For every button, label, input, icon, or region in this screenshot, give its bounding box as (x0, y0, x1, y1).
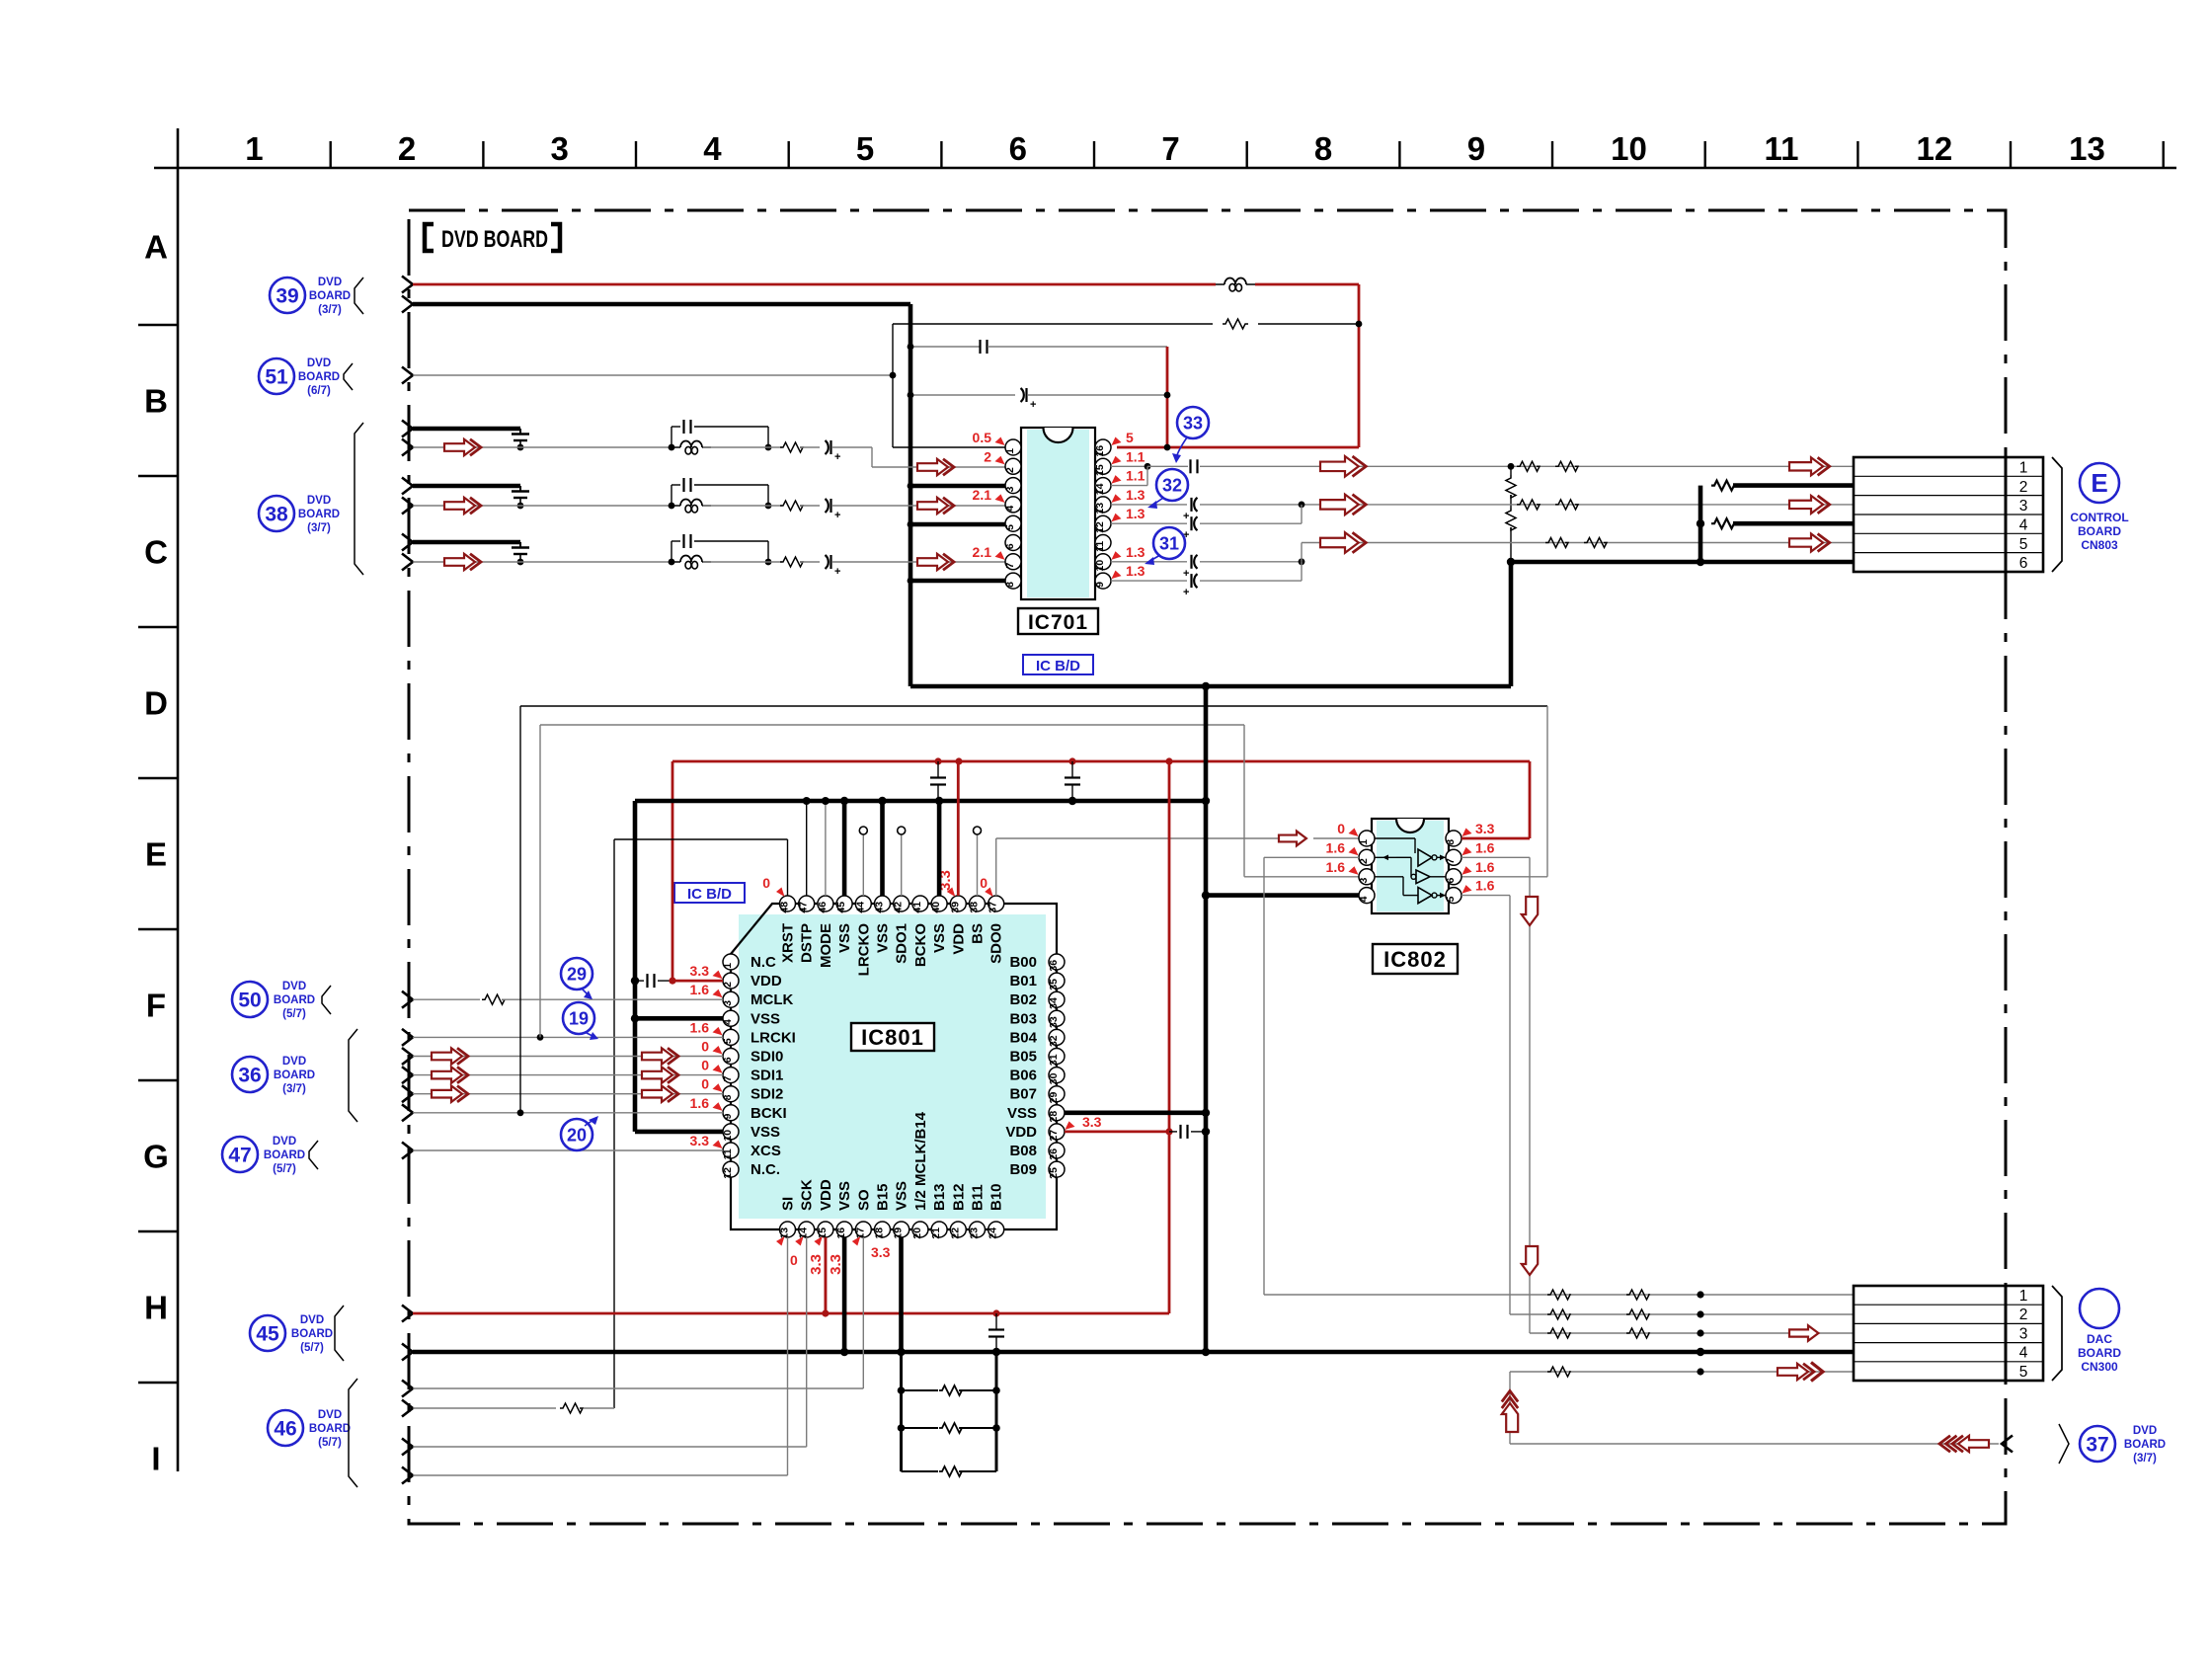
arrow up row5 (1502, 1391, 1518, 1433)
wire SDO0 to IC802 pin1 (1313, 837, 1359, 839)
wire conn37 line (1510, 1443, 1999, 1445)
arrow conn37 triple left (1939, 1436, 1989, 1452)
svg-text:15: 15 (1094, 464, 1106, 476)
svg-text:C: C (144, 534, 168, 571)
svg-text:10: 10 (722, 1130, 734, 1142)
svg-text:29: 29 (1048, 1092, 1060, 1104)
junction Rnet1 r (992, 1386, 1000, 1394)
IC801 pin 14 (798, 1222, 815, 1239)
wire pin13 to cap (1111, 504, 1187, 506)
svg-text:15: 15 (817, 1227, 829, 1239)
resistor row2 b (1626, 1309, 1649, 1319)
connector 39 circle (270, 277, 305, 313)
arrow signal ch2 (444, 498, 481, 514)
svg-text:36: 36 (1048, 960, 1060, 972)
svg-text:+: + (1030, 399, 1036, 411)
voltage 1.6 IC802 left (1326, 839, 1359, 855)
svg-text:BOARD: BOARD (274, 1069, 315, 1081)
IC801 pin 32 (1048, 1029, 1065, 1047)
svg-text:B02: B02 (1009, 991, 1037, 1008)
svg-text:VDD: VDD (950, 923, 967, 955)
capacitor parallel ch2 (671, 478, 768, 506)
voltage 1.6 IC802 right (1462, 878, 1495, 894)
svg-text:11: 11 (1094, 541, 1106, 552)
svg-text:1/2 MCLK/B14: 1/2 MCLK/B14 (912, 1111, 929, 1211)
wire pin9 up (1200, 562, 1302, 581)
ref 29 circle (561, 958, 592, 990)
resistor row3 a (1547, 1328, 1570, 1338)
wire pin15 to cap (1147, 465, 1188, 467)
connector 46 label (309, 1409, 351, 1449)
connector E box (1854, 457, 2043, 572)
connector 50 circle (232, 982, 268, 1017)
connector 38 chevron gnd ch3 (402, 534, 413, 551)
wire ch1 c (800, 446, 820, 448)
wire pin42 stub (901, 833, 903, 896)
ref 31 circle (1153, 527, 1185, 559)
IC802 inverter U802c (1375, 877, 1446, 904)
svg-text:38: 38 (969, 902, 981, 913)
voltage 0 IC802 left (1337, 821, 1358, 836)
IC701 pin 10 (1094, 554, 1111, 572)
red bus corner to pin2 (672, 761, 723, 981)
svg-text:(5/7): (5/7) (318, 1437, 342, 1449)
connector 47 label (264, 1136, 305, 1175)
voltage 3.3 IC801 left (690, 963, 723, 979)
connector 51 pin chevron (402, 367, 413, 384)
svg-text:B09: B09 (1009, 1161, 1037, 1178)
junction rail pin15 (822, 1309, 829, 1316)
wire 3.3V rail row H (413, 1312, 1169, 1315)
junction LRCKI x547 (537, 1034, 544, 1041)
svg-text:6: 6 (1009, 130, 1027, 167)
resistor row4 gnd (1711, 518, 1734, 528)
resistor row2 a (1547, 1309, 1570, 1319)
svg-text:BOARD: BOARD (264, 1149, 305, 1161)
voltage 3.3 pin27 (1066, 1114, 1102, 1130)
junction C805 gnd rail (992, 1348, 1000, 1356)
wire conn46-1 SO (413, 1387, 863, 1389)
resistor R-MCLK (482, 994, 505, 1004)
gnd bus above IC801 (635, 799, 1206, 804)
svg-text:14: 14 (1094, 483, 1106, 495)
IC801 pin 34 (1048, 991, 1065, 1009)
junction C803 red (669, 978, 675, 985)
IC701 pin 11 (1094, 535, 1111, 552)
svg-text:10: 10 (1611, 130, 1647, 167)
wire MCLK b (502, 998, 723, 1000)
wire BCKI line A (520, 705, 1547, 707)
resistor chain to gnd (1510, 527, 1512, 562)
ruler top ticks (331, 141, 2164, 168)
svg-text:B08: B08 (1009, 1143, 1037, 1159)
svg-text:DSTP: DSTP (799, 923, 816, 963)
svg-text:BOARD: BOARD (298, 509, 340, 520)
svg-text:MCLK: MCLK (750, 991, 793, 1008)
svg-text:8: 8 (1314, 130, 1332, 167)
wire pin38 stub (977, 833, 979, 896)
arrow row5 to connE (1789, 533, 1830, 551)
wire cap C702 right (1028, 394, 1167, 396)
inductor L701 on 5V wire (1216, 278, 1255, 292)
svg-text:16: 16 (1094, 445, 1106, 457)
IC701 body outline (1021, 428, 1095, 599)
svg-text:33: 33 (1183, 413, 1203, 433)
svg-text:VSS: VSS (1007, 1105, 1037, 1122)
IC801 pin 12 (722, 1161, 739, 1179)
svg-text:39: 39 (949, 902, 961, 913)
IC801 pin 18 (874, 1222, 891, 1239)
svg-text:34: 34 (1048, 997, 1060, 1009)
voltage 3.3 IC802 right (1462, 821, 1495, 836)
svg-text:9: 9 (1467, 130, 1485, 167)
connector 37 label (2124, 1425, 2166, 1465)
svg-text:27: 27 (1048, 1130, 1060, 1142)
svg-text:B04: B04 (1009, 1029, 1037, 1046)
voltage 1.6 IC801 left (690, 1019, 723, 1035)
svg-text:DVD: DVD (282, 981, 306, 992)
voltage label 2.1 IC701 left (973, 487, 1005, 503)
IC701 label box (1018, 608, 1098, 634)
IC801 body fill (739, 914, 1046, 1219)
wire BCKI riser x527 (519, 706, 521, 1113)
junction gnd bus pin5 (908, 521, 914, 528)
wire ch2 c (800, 505, 820, 507)
svg-text:CN803: CN803 (2081, 538, 2118, 552)
IC801 pin 5 (722, 1029, 739, 1045)
junction row1 x1530 (1508, 463, 1515, 470)
connector 36 chevron BCKI (402, 1104, 413, 1121)
arrow signal ch3 (444, 554, 481, 570)
svg-text:7: 7 (1445, 858, 1457, 864)
svg-text:B01: B01 (1009, 973, 1037, 990)
svg-text:1.6: 1.6 (1326, 859, 1346, 875)
wire pin44 stub (862, 833, 864, 896)
svg-text:SDI2: SDI2 (750, 1086, 783, 1103)
svg-text:1: 1 (722, 963, 734, 969)
junction C803 gnd (631, 977, 639, 985)
junction LC left ch1 (669, 444, 675, 451)
wire pin12 to cap (1111, 522, 1187, 524)
inductor L ch3 (671, 556, 711, 569)
wire conn46-2 b (584, 1407, 614, 1409)
svg-text:4: 4 (722, 1019, 734, 1025)
IC801 pin 36 (1048, 954, 1065, 972)
svg-text:CN300: CN300 (2081, 1360, 2118, 1374)
ref 33 circle (1177, 407, 1209, 438)
svg-text:F: F (146, 988, 166, 1024)
wire gnd riser x1722 (1698, 486, 1703, 562)
junction gnd x1530 (1507, 558, 1515, 566)
svg-text:5: 5 (1126, 430, 1134, 445)
connector 46 chevron 4 (402, 1467, 413, 1484)
voltage 0 pin37 (980, 875, 992, 897)
junction row1 x1722 (1697, 1291, 1703, 1298)
wire gnd to pin8 (910, 579, 1005, 584)
svg-text:DAC: DAC (2087, 1332, 2112, 1346)
connector 46 circle (268, 1410, 303, 1446)
svg-text:(3/7): (3/7) (282, 1083, 306, 1095)
voltage label 1.3 IC701 right (1112, 563, 1145, 579)
IC701 pin 6 (1004, 535, 1021, 551)
voltage 3.3 pin39 rotated (937, 870, 955, 897)
svg-text:18: 18 (874, 1227, 886, 1239)
capacitor series polarized ch1 (826, 440, 841, 463)
svg-text:16: 16 (835, 1227, 847, 1239)
connector E pin numbers (2019, 460, 2028, 573)
connector CN300 row separators (1854, 1305, 2043, 1362)
wire pin9 to cap (1111, 580, 1187, 582)
resistor row5 a (1545, 538, 1568, 548)
svg-text:21: 21 (930, 1227, 942, 1239)
svg-text:5: 5 (1445, 896, 1457, 902)
capacitor series polarized ch3 (826, 555, 841, 578)
voltage label 1.3 IC701 right (1112, 487, 1145, 503)
resistor chain vertical link (1510, 466, 1512, 508)
svg-text:DVD: DVD (307, 495, 331, 507)
wire LRCKI line B (540, 724, 1244, 726)
svg-text:10: 10 (1094, 560, 1106, 572)
wire line B to IC802 pin3 (1244, 876, 1359, 878)
junction row x1318 pin10 (1299, 558, 1305, 565)
svg-text:SDI1: SDI1 (750, 1068, 783, 1084)
svg-text:37: 37 (987, 902, 999, 913)
junction gnd x1722 row4 (1697, 519, 1704, 527)
svg-text:3.3: 3.3 (1082, 1114, 1102, 1130)
svg-text:6: 6 (1004, 543, 1016, 549)
svg-text:2.1: 2.1 (973, 544, 992, 560)
svg-text:B06: B06 (1009, 1068, 1037, 1084)
svg-text:(3/7): (3/7) (307, 522, 331, 534)
wire ch1 jog (872, 447, 1005, 467)
wire gnd row6 to connE (1511, 560, 1854, 565)
IC801 pin 8 (722, 1086, 739, 1102)
resistor ch1 (780, 442, 803, 452)
IC801 pin 27 (1048, 1124, 1065, 1142)
inductor L ch1 (671, 441, 711, 455)
resistor row1 a (1547, 1290, 1570, 1300)
terminal pin42 (898, 827, 906, 834)
wire ch1 b (703, 446, 782, 448)
IC801 pin 45 (835, 896, 852, 913)
svg-text:3: 3 (1358, 878, 1370, 884)
wire GND thick from conn39 (413, 302, 910, 307)
wire conn46-4 SI (413, 1474, 788, 1476)
svg-text:B03: B03 (1009, 1010, 1037, 1027)
svg-text:IC701: IC701 (1028, 611, 1088, 634)
wire red 5V to corner (1255, 283, 1359, 286)
svg-text:BOARD: BOARD (274, 994, 315, 1006)
svg-text:19: 19 (893, 1227, 905, 1239)
IC801 pin 42 (893, 896, 909, 913)
junction gnd bus pin3 (908, 483, 914, 490)
svg-text:B11: B11 (970, 1184, 987, 1211)
junction BCKI x527 (517, 1109, 524, 1116)
svg-text:A: A (144, 229, 168, 266)
junction gnd rail x1722 (1697, 1348, 1704, 1356)
IC801 pin 38 (969, 896, 986, 913)
svg-text:DVD BOARD: DVD BOARD (441, 226, 548, 253)
arrow row3 to connE (1789, 496, 1830, 514)
svg-text:BS: BS (970, 923, 987, 944)
IC801 pin 21 (930, 1222, 947, 1239)
wire IC802 pin2 down x1280 (1264, 857, 1359, 1295)
IC701 notch (1044, 428, 1073, 442)
svg-text:3: 3 (1004, 486, 1016, 492)
junction pin46 gnd (822, 797, 829, 805)
capacitor C706 polarized (1183, 555, 1198, 580)
svg-text:7: 7 (1161, 130, 1179, 167)
IC801 pin 37 (987, 896, 1004, 913)
svg-text:30: 30 (1048, 1072, 1060, 1084)
wire pin13 row (1200, 504, 1854, 506)
IC801 pin 48 (779, 896, 796, 913)
svg-text:0: 0 (701, 1058, 709, 1073)
svg-text:6: 6 (722, 1057, 734, 1063)
wire row1 to connE (1200, 465, 1854, 467)
junction LC left ch2 (669, 503, 675, 510)
IC801 label text (861, 1025, 924, 1050)
junction C804 gnd trunk (1202, 1128, 1210, 1136)
IC801 pin 10 (722, 1124, 739, 1142)
connector 46 chevron 3 (402, 1439, 413, 1456)
svg-text:DVD: DVD (2133, 1425, 2157, 1437)
svg-text:2: 2 (984, 448, 991, 464)
IC801 pin 39 (949, 896, 966, 913)
svg-text:BOARD: BOARD (2078, 524, 2121, 538)
connector CN300 brace (2052, 1286, 2062, 1381)
wire pin12 up (1200, 505, 1302, 523)
connector 45 chevron gnd (402, 1344, 413, 1361)
svg-text:2: 2 (2019, 479, 2028, 496)
junction pin19 gnd rail (897, 1348, 905, 1356)
IC801 pin 4 (722, 1010, 739, 1026)
wire row3 CN300 (1530, 1332, 1854, 1334)
svg-text:13: 13 (1094, 503, 1106, 515)
junction rail cap (992, 1309, 999, 1316)
wire pin17 SO (862, 1237, 864, 1388)
title bracket left (425, 224, 434, 251)
gnd trunk x1221 (1204, 686, 1209, 1352)
wire SDI1 (413, 1074, 723, 1076)
svg-text:22: 22 (949, 1227, 961, 1239)
junction red bus x1184 (1165, 757, 1172, 764)
svg-text:1.6: 1.6 (690, 1095, 710, 1111)
svg-text:B05: B05 (1009, 1049, 1037, 1066)
DVD board dash-dot border (409, 210, 2006, 1524)
svg-text:CONTROL: CONTROL (2070, 511, 2128, 524)
IC801 pin 41 (911, 896, 928, 913)
svg-text:51: 51 (265, 366, 288, 389)
IC802 pin 7 (1445, 849, 1461, 865)
junction gnd bus x1221b (1202, 797, 1210, 805)
svg-text:BOARD: BOARD (298, 371, 340, 383)
IC701 pin 15 (1094, 458, 1111, 476)
junction LC right ch3 (765, 559, 772, 566)
svg-text:3.3: 3.3 (808, 1254, 825, 1275)
svg-text:3: 3 (551, 130, 569, 167)
svg-text:50: 50 (238, 990, 261, 1012)
wire pin47 tie (806, 801, 808, 896)
svg-text:+: + (1183, 587, 1189, 598)
IC801 pin 30 (1048, 1068, 1065, 1085)
svg-text:6: 6 (1445, 878, 1457, 884)
junction pin28 trunk (1202, 1109, 1210, 1117)
junction pin43 gnd (878, 797, 886, 805)
connector 36 circle (232, 1057, 268, 1092)
svg-text:DVD: DVD (300, 1314, 324, 1326)
svg-text:+: + (834, 510, 840, 521)
wire ch3 c (800, 561, 820, 563)
svg-text:1.1: 1.1 (1126, 448, 1145, 464)
junction pin16 gnd rail (840, 1348, 848, 1356)
svg-text:B15: B15 (875, 1183, 892, 1211)
IC801 pin 20 (911, 1222, 928, 1239)
svg-text:LRCKI: LRCKI (750, 1029, 796, 1046)
voltage label 5 IC701 right (1112, 430, 1135, 445)
terminal pin44 (859, 827, 867, 834)
connector CN300 box (1854, 1286, 2043, 1381)
resistor row1 a (1517, 461, 1540, 471)
capacitor shunt C ch1 (512, 429, 529, 447)
connector 51 circle (259, 358, 294, 394)
resistor row3 a (1517, 500, 1540, 510)
svg-text:1.3: 1.3 (1126, 487, 1145, 503)
svg-text:17: 17 (854, 1227, 866, 1239)
connector 45 brace (335, 1306, 344, 1361)
capacitor C802 red-gnd (1065, 761, 1080, 801)
wire cap C701 right (987, 346, 1167, 348)
svg-text:33: 33 (1048, 1016, 1060, 1028)
junction gnd x1722 (1697, 558, 1704, 566)
voltage label 2.1 IC701 left (973, 544, 1005, 560)
svg-text:2: 2 (1358, 858, 1370, 864)
connector 37 brace (2059, 1424, 2069, 1464)
voltage 1.6 IC802 right (1462, 859, 1495, 875)
svg-text:28: 28 (1048, 1111, 1060, 1123)
resistor row5 b (1584, 538, 1607, 548)
resistor row1 b (1626, 1290, 1649, 1300)
IC801 pin 44 (854, 896, 871, 913)
svg-text:36: 36 (238, 1065, 261, 1087)
connector 47 circle (222, 1137, 258, 1172)
svg-text:I: I (151, 1441, 160, 1477)
arrow row5 CN300 triple (1777, 1363, 1823, 1382)
svg-text:BCKO: BCKO (912, 923, 929, 967)
junction C802 gnd bus (1068, 797, 1076, 805)
junction pin27 red trunk (1165, 1128, 1172, 1135)
svg-text:11: 11 (1765, 130, 1799, 167)
arrow SDI0 a (432, 1048, 468, 1064)
svg-text:0: 0 (1337, 821, 1345, 836)
svg-text:XRST: XRST (780, 923, 797, 963)
svg-text:29: 29 (567, 964, 587, 984)
connector 39 pin chevron b (402, 296, 413, 313)
connector 36 chevron LRCKI (402, 1029, 413, 1046)
wire gnd ch3 (413, 540, 520, 545)
capacitor shunt C ch3 (512, 542, 529, 562)
svg-text:VSS: VSS (894, 1181, 910, 1211)
IC802 pin 6 (1445, 869, 1461, 885)
junction shunt cap ch3 (517, 559, 524, 566)
wire signal ch1 a (413, 446, 671, 448)
svg-text:5: 5 (2019, 536, 2028, 553)
wire red 5V to IC701 pin16 (1117, 446, 1359, 449)
IC801 pin 9 (722, 1105, 739, 1121)
wire pin40 tie (937, 801, 942, 896)
wire IC802 pin7 down x1549 (1461, 857, 1530, 1333)
svg-text:BOARD: BOARD (291, 1328, 333, 1340)
